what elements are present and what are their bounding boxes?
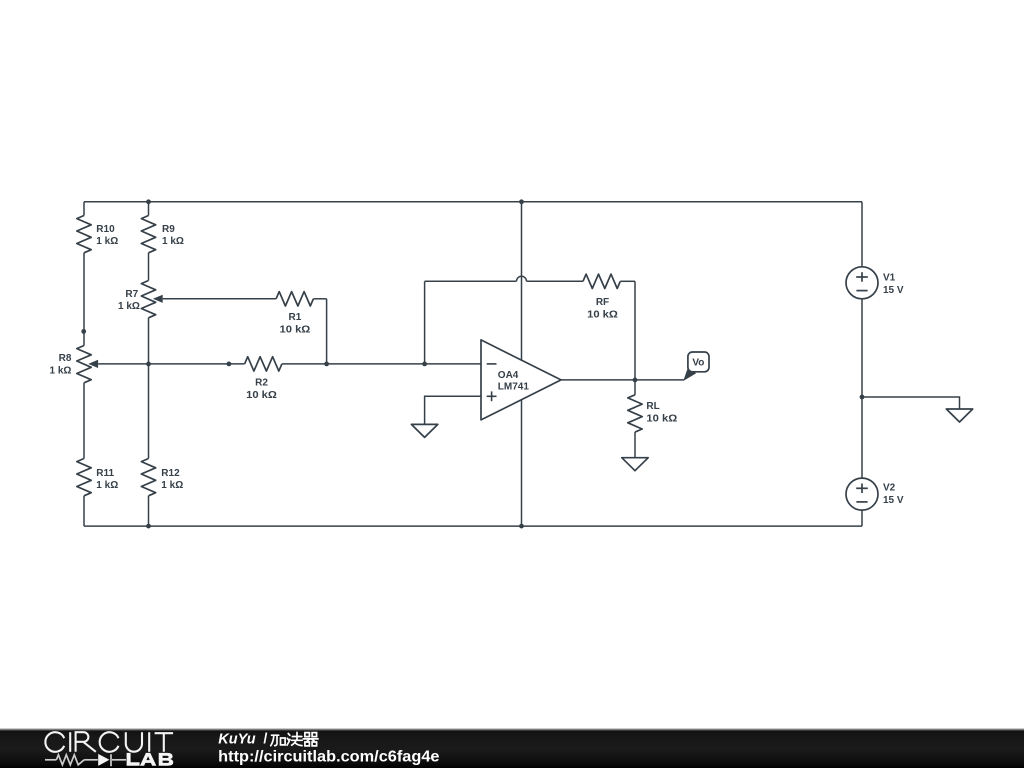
resistor RF [583, 274, 620, 288]
logo LAB text [127, 753, 174, 766]
wire RL bottom lead [634, 432, 636, 458]
junction top rail / R9 [146, 199, 151, 204]
svg-text:10 kΩ: 10 kΩ [587, 309, 618, 320]
svg-text:/: / [263, 731, 267, 747]
wire R9 top lead [148, 202, 150, 216]
wire V1 to V2 [861, 299, 863, 478]
R7 wiper arrow [153, 295, 163, 303]
wire RF down to output [634, 281, 636, 380]
flag Vo box [688, 352, 709, 372]
junction supply mid node [860, 395, 865, 400]
resistor R11 [77, 459, 91, 496]
wire V2 bottom lead [861, 510, 863, 526]
ground supply mid [946, 409, 972, 422]
wire R8 wiper to R2 [98, 363, 245, 365]
footer bar [0, 729, 1024, 768]
svg-text:RF: RF [596, 297, 609, 308]
wire RL top lead [634, 380, 636, 395]
wire top rail [84, 201, 862, 203]
ground op-amp + input [411, 424, 437, 437]
resistor R1 [276, 292, 313, 306]
op-amp minus sign [487, 363, 497, 365]
wire feedback up [424, 281, 426, 364]
logo CIRCUIT text [45, 732, 173, 752]
svg-text:OA4: OA4 [498, 370, 519, 381]
wire op-amp + input [425, 396, 481, 424]
svg-text:LM741: LM741 [498, 382, 530, 393]
junction top rail supply [519, 199, 524, 204]
svg-text:1 kΩ: 1 kΩ [96, 236, 118, 247]
resistor R2 [245, 357, 282, 371]
junction mid row x149 [146, 362, 151, 367]
wire R1 down [326, 299, 328, 364]
svg-text:10 kΩ: 10 kΩ [646, 414, 677, 425]
svg-text:1 kΩ: 1 kΩ [50, 366, 72, 377]
potentiometer R7 [141, 281, 155, 318]
svg-text:R7: R7 [125, 289, 138, 300]
wire feedback left segment [425, 280, 517, 282]
wire R10 top lead [83, 202, 85, 216]
wire R9-R7 [148, 253, 150, 281]
wire R10-R8 [83, 253, 85, 346]
svg-text:http://circuitlab.com/c6fag4e: http://circuitlab.com/c6fag4e [218, 749, 439, 766]
wire hop over supply [517, 276, 527, 281]
junction bottom rail supply [519, 524, 524, 529]
junction feedback node [422, 362, 427, 367]
svg-text:10 kΩ: 10 kΩ [280, 324, 311, 335]
resistor RL [628, 395, 642, 432]
op-amp plus sign [487, 391, 497, 401]
svg-text:R9: R9 [162, 224, 175, 235]
junction R2 left node [227, 362, 232, 367]
svg-text:RL: RL [646, 401, 659, 412]
svg-text:KuYu: KuYu [218, 731, 255, 747]
wire R8-R11 [83, 383, 85, 459]
voltage source V2 [846, 478, 878, 510]
svg-text:R12: R12 [161, 468, 180, 479]
wire op-amp V+ supply [521, 202, 523, 360]
wire feedback to RF [527, 280, 584, 282]
potentiometer R8 [77, 346, 91, 383]
wire R7 wiper to R1 [163, 298, 276, 300]
wire R2 to op-amp inverting input [282, 363, 481, 365]
svg-text:R8: R8 [59, 353, 72, 364]
junction bottom rail x149 [146, 524, 151, 529]
svg-text:1 kΩ: 1 kΩ [96, 480, 118, 491]
logo resistor-diode symbol [45, 754, 126, 766]
wire R7 to R12 [148, 318, 150, 459]
svg-text:R2: R2 [255, 378, 268, 389]
svg-text:15 V: 15 V [883, 285, 904, 296]
footer title 加法器 (drawn glyphs) [271, 732, 318, 746]
svg-text:15 V: 15 V [883, 495, 904, 506]
svg-text:10 kΩ: 10 kΩ [246, 390, 277, 401]
svg-text:1 kΩ: 1 kΩ [161, 480, 183, 491]
wire op-amp V- supply [521, 400, 523, 526]
svg-text:1 kΩ: 1 kΩ [162, 236, 184, 247]
svg-text:V1: V1 [883, 273, 896, 284]
svg-text:1 kΩ: 1 kΩ [118, 301, 140, 312]
wire R1 right lead [313, 298, 326, 300]
resistor R12 [141, 459, 155, 496]
op-amp U1 OA4 [481, 340, 561, 420]
wire op-amp output [561, 379, 684, 381]
R8 wiper arrow [88, 360, 98, 368]
svg-text:R10: R10 [96, 224, 115, 235]
wire R11 bottom lead [83, 496, 85, 526]
resistor R10 [77, 216, 91, 253]
wire RF right lead [620, 280, 635, 282]
svg-text:R1: R1 [289, 312, 302, 323]
junction R1/R2 node [324, 362, 329, 367]
voltage source V1 [846, 267, 878, 299]
wire to right ground [862, 397, 960, 409]
svg-text:R11: R11 [96, 468, 114, 479]
flag Vo pointer [683, 368, 696, 381]
wire top rail to V1 [861, 202, 863, 267]
junction R8 top node [81, 329, 86, 334]
junction output node [633, 378, 638, 383]
wire bottom rail [84, 525, 862, 527]
svg-text:V2: V2 [883, 483, 896, 494]
resistor R9 [141, 216, 155, 253]
ground RL [622, 458, 648, 471]
svg-text:Vo: Vo [692, 358, 704, 369]
logo diode triangle [98, 754, 109, 766]
wire R12 bottom lead [148, 496, 150, 526]
